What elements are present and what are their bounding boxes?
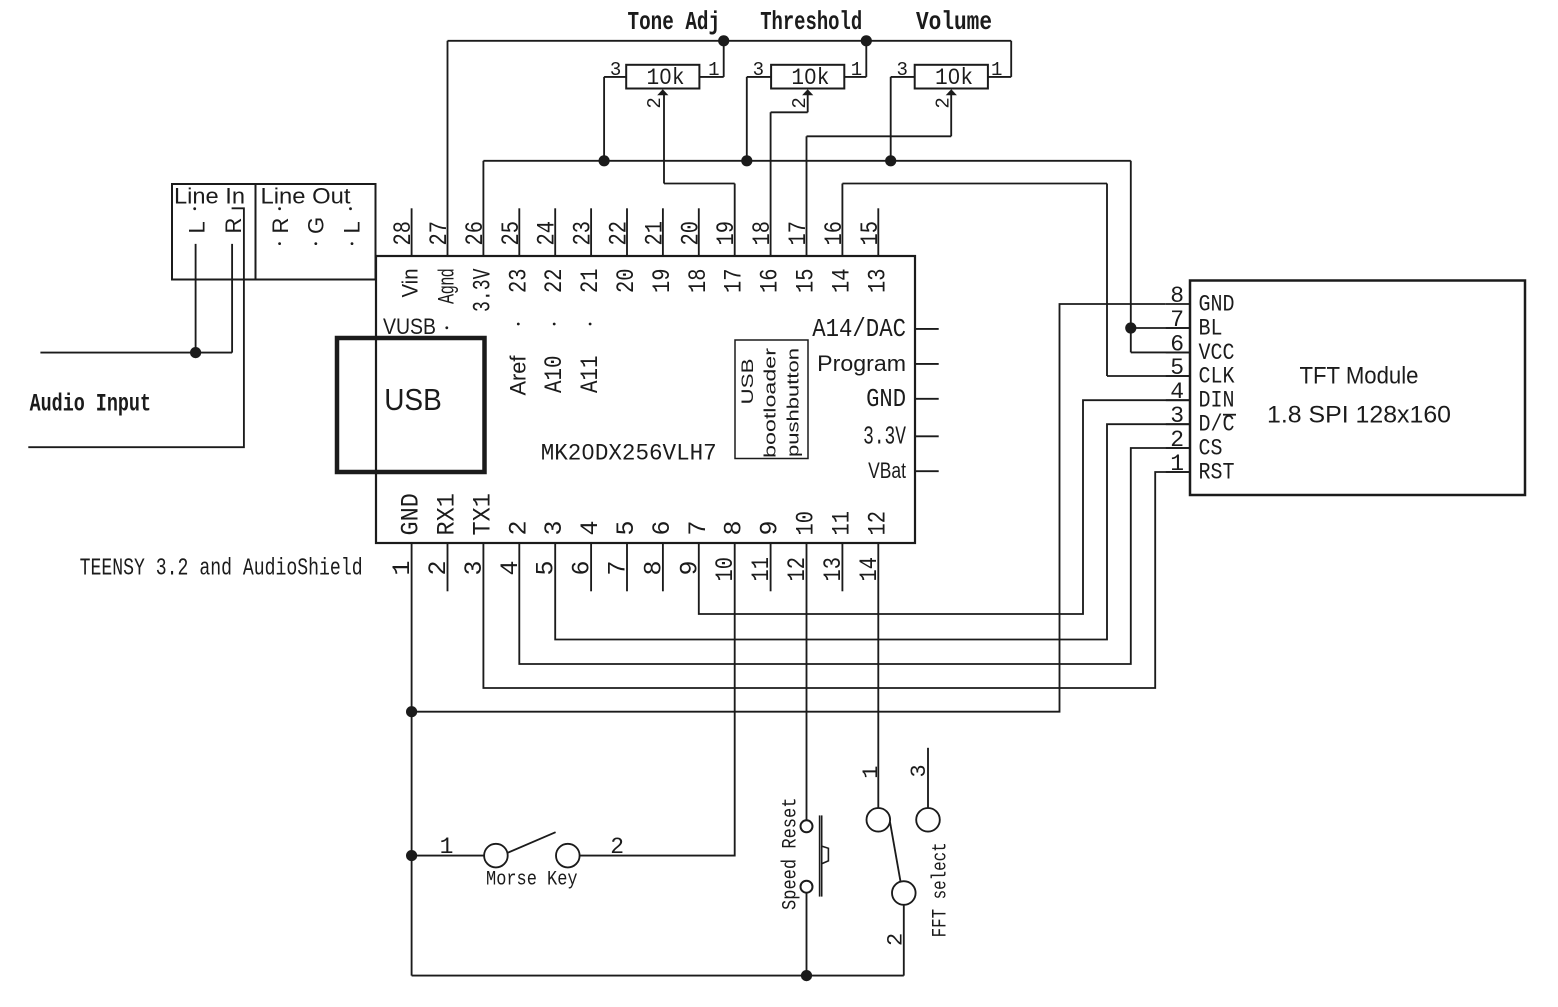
pin VBat right	[915, 470, 939, 472]
svg-text:22: 22	[540, 269, 569, 294]
svg-text:Tone Adj: Tone Adj	[628, 7, 721, 37]
wire pot2 wiper to pin 16 (pad 18)	[807, 95, 809, 112]
svg-text:A14/DAC: A14/DAC	[812, 314, 906, 344]
svg-text:1: 1	[708, 59, 719, 81]
svg-text:2: 2	[884, 933, 909, 946]
usb connector box	[337, 338, 485, 472]
pin 3 (D/C) TFT	[1166, 423, 1190, 425]
wire bottom GND rail	[412, 975, 904, 977]
pin pad 20 (18) top	[698, 208, 700, 256]
svg-text:3.3V: 3.3V	[863, 421, 906, 451]
svg-text:16: 16	[756, 269, 785, 294]
pin 5 (CLK) TFT	[1166, 375, 1190, 377]
svg-text:FFT select: FFT select	[930, 842, 953, 937]
svg-text:1.8 SPI 128x160: 1.8 SPI 128x160	[1267, 401, 1451, 428]
svg-text:3: 3	[610, 59, 621, 81]
svg-text:pushbutton: pushbutton	[784, 348, 803, 457]
wire pot1 pin3 drop	[603, 77, 605, 161]
wire pot3 wiper to pin 15 (pad 17)	[950, 95, 952, 136]
svg-text:GND: GND	[1199, 292, 1235, 318]
junction dot audio L	[190, 347, 201, 358]
svg-text:6: 6	[648, 520, 677, 535]
svg-text:18: 18	[748, 221, 777, 246]
pin 6 (VCC) TFT	[1166, 351, 1190, 353]
svg-text:Line Out: Line Out	[261, 184, 351, 209]
junction dot speed reset GND	[801, 970, 812, 981]
svg-text:GND: GND	[866, 384, 906, 414]
wire pin 12 (pad 14) to FFT select	[877, 543, 879, 808]
svg-text:17: 17	[720, 269, 749, 294]
connector Line In box	[172, 184, 256, 280]
svg-text:21: 21	[640, 221, 669, 246]
pin pad 24 (22) top	[554, 208, 556, 256]
svg-text:9: 9	[756, 520, 785, 535]
svg-text:G: G	[304, 217, 329, 234]
svg-text:25: 25	[497, 221, 526, 246]
svg-text:RX1: RX1	[433, 493, 462, 535]
pin A14/DAC right	[915, 328, 939, 330]
mcu U1 MK20DX256VLH7 body	[376, 256, 915, 543]
svg-text:18: 18	[684, 269, 713, 294]
wire GND net vertical	[411, 543, 413, 976]
svg-text:6: 6	[568, 560, 597, 575]
switch S3 FFT select	[867, 808, 891, 832]
pin Program right	[915, 363, 939, 365]
pin dot VUSB	[445, 326, 448, 329]
svg-text:22: 22	[605, 221, 634, 246]
svg-text:3: 3	[753, 59, 764, 81]
svg-text:23: 23	[504, 269, 533, 294]
wire morse pin2 to pin 8 (pad 10)	[580, 543, 735, 856]
svg-text:Vin: Vin	[398, 269, 423, 298]
svg-text:7: 7	[684, 520, 713, 535]
svg-text:USB: USB	[738, 359, 757, 405]
pin pad 8 (6) bottom	[662, 543, 664, 591]
svg-text:TFT Module: TFT Module	[1300, 363, 1419, 390]
pin dots Aref A10 A11	[517, 323, 520, 326]
pin pad 13 (11) bottom	[841, 543, 843, 591]
svg-text:3: 3	[1170, 403, 1184, 429]
svg-text:2: 2	[504, 520, 533, 535]
svg-text:8: 8	[639, 560, 668, 575]
wire pot3 pin3 drop	[890, 77, 892, 161]
svg-text:12: 12	[863, 511, 892, 536]
wire morse pin1	[412, 855, 484, 857]
svg-text:20: 20	[676, 221, 705, 246]
svg-text:15: 15	[856, 221, 885, 246]
svg-text:13: 13	[863, 269, 892, 294]
svg-text:USB: USB	[384, 382, 442, 417]
pin pad 21 (19) top	[662, 208, 664, 256]
pin pad 25 (23) top	[518, 208, 520, 256]
svg-text:8: 8	[720, 520, 749, 535]
svg-text:5: 5	[1170, 355, 1184, 381]
potentiometer R3 10k	[915, 65, 988, 89]
wire FFT pin 2 to GND rail	[903, 905, 905, 976]
svg-text:26: 26	[461, 221, 490, 246]
svg-text:A11: A11	[576, 356, 605, 394]
wire audio input bottom (R jog)	[28, 208, 244, 447]
svg-text:VCC: VCC	[1199, 340, 1235, 366]
svg-text:Audio Input: Audio Input	[30, 390, 151, 419]
svg-text:23: 23	[569, 221, 598, 246]
svg-text:TX1: TX1	[468, 493, 497, 535]
wire FFT pin 3 stub	[927, 748, 929, 808]
svg-text:10k: 10k	[935, 65, 973, 91]
pin pad 28 (Vin) top	[411, 208, 413, 256]
svg-text:3: 3	[896, 59, 907, 81]
svg-text:1: 1	[859, 766, 884, 779]
pin pad 11 (9) bottom	[770, 543, 772, 591]
svg-text:Threshold: Threshold	[760, 7, 862, 37]
svg-text:27: 27	[425, 221, 454, 246]
wire pin 10 (pad 12) to speed reset	[806, 543, 808, 820]
switch S1 Morse Key	[484, 844, 508, 868]
svg-text:1: 1	[851, 59, 862, 81]
svg-text:2: 2	[644, 97, 666, 108]
wire RST net (TX1 / pad 3)	[483, 472, 1190, 688]
svg-text:9: 9	[675, 560, 704, 575]
svg-text:Program: Program	[817, 351, 906, 376]
svg-text:5: 5	[612, 520, 641, 535]
svg-text:RST: RST	[1199, 460, 1235, 486]
pushbutton SW2 Speed Reset	[801, 820, 813, 832]
wire Agnd to pots pin1 (top rail)	[447, 41, 449, 256]
svg-text:28: 28	[389, 221, 418, 246]
wire CS net (pin 2 / pad 4)	[519, 448, 1190, 664]
svg-text:4: 4	[496, 560, 525, 575]
svg-text:13: 13	[819, 557, 848, 582]
svg-text:bootloader: bootloader	[761, 348, 780, 458]
svg-text:R: R	[221, 218, 246, 234]
svg-text:19: 19	[648, 269, 677, 294]
svg-text:VUSB: VUSB	[383, 314, 436, 339]
svg-text:MK20DX256VLH7: MK20DX256VLH7	[541, 441, 717, 467]
svg-text:1: 1	[388, 560, 417, 575]
pin dots Line In/Out	[193, 207, 196, 210]
pin pad 6 (4) bottom	[590, 543, 592, 591]
svg-text:A10: A10	[540, 356, 569, 394]
svg-text:1: 1	[1170, 451, 1184, 477]
wire DIN net (pin 7 / pad 9)	[699, 400, 1190, 614]
svg-text:4: 4	[576, 520, 605, 535]
svg-text:10: 10	[711, 557, 740, 582]
svg-text:12: 12	[783, 557, 812, 582]
pin 7 (BL) TFT	[1166, 327, 1190, 329]
svg-text:VBat: VBat	[868, 458, 906, 483]
junction dot TFT BL / 3.3V	[1125, 322, 1136, 333]
svg-text:4: 4	[1170, 379, 1184, 405]
svg-text:3: 3	[540, 520, 569, 535]
svg-text:21: 21	[576, 269, 605, 294]
junction dot pot2 pin3 / 3.3V	[741, 155, 752, 166]
wire 3.3V rail	[482, 161, 484, 256]
svg-text:Aref: Aref	[505, 355, 530, 396]
svg-text:Morse Key: Morse Key	[486, 869, 578, 892]
svg-text:2: 2	[1170, 427, 1184, 453]
pin 4 (DIN) TFT	[1166, 399, 1190, 401]
tft module box	[1190, 281, 1525, 496]
svg-text:Agnd: Agnd	[434, 269, 459, 305]
junction dot pot2 pin1 / Agnd	[861, 35, 872, 46]
svg-text:7: 7	[604, 560, 633, 575]
pin GND right	[915, 398, 939, 400]
svg-text:15: 15	[792, 269, 821, 294]
svg-text:16: 16	[820, 221, 849, 246]
wire pin 14 (pad 16) to TFT CLK	[841, 184, 843, 257]
svg-text:14: 14	[855, 557, 884, 582]
svg-text:10k: 10k	[647, 65, 685, 91]
svg-text:1: 1	[991, 59, 1002, 81]
svg-text:L: L	[340, 221, 365, 233]
svg-text:8: 8	[1170, 283, 1184, 309]
pin pad 7 (5) bottom	[626, 543, 628, 591]
svg-text:19: 19	[712, 221, 741, 246]
potentiometer R2 10k	[771, 65, 844, 89]
svg-text:3.3V: 3.3V	[468, 268, 497, 312]
wire D/C net (pin 3 / pad 5)	[555, 424, 1190, 639]
pin pad 15 (13) top	[877, 208, 879, 256]
svg-text:Line In: Line In	[174, 184, 245, 209]
junction dot pot1 pin3 / 3.3V	[599, 155, 610, 166]
svg-text:20: 20	[612, 269, 641, 294]
svg-text:Volume: Volume	[916, 7, 992, 37]
svg-text:CS: CS	[1199, 436, 1223, 462]
svg-text:CLK: CLK	[1199, 364, 1235, 390]
junction dot GND branch	[406, 706, 417, 717]
pin pad 22 (20) top	[626, 208, 628, 256]
connector Line Out box	[256, 184, 376, 280]
pin pad 2 (RX1) bottom	[447, 543, 449, 591]
svg-text:7: 7	[1170, 307, 1184, 333]
svg-text:11: 11	[747, 557, 776, 582]
svg-text:10k: 10k	[791, 65, 829, 91]
svg-text:L: L	[185, 221, 210, 233]
svg-text:14: 14	[827, 269, 856, 294]
svg-text:BL: BL	[1199, 316, 1223, 342]
svg-text:DIN: DIN	[1199, 388, 1235, 414]
svg-text:3: 3	[460, 560, 489, 575]
svg-text:Speed Reset: Speed Reset	[780, 798, 803, 911]
svg-text:TEENSY 3.2 and AudioShield: TEENSY 3.2 and AudioShield	[80, 556, 363, 583]
svg-text:R: R	[268, 218, 293, 234]
junction dot pot1 pin1 / Agnd	[718, 35, 729, 46]
svg-text:6: 6	[1170, 331, 1184, 357]
svg-text:11: 11	[827, 511, 856, 536]
svg-text:24: 24	[533, 221, 562, 246]
svg-text:17: 17	[784, 221, 813, 246]
pin pad 23 (21) top	[590, 208, 592, 256]
pin 3.3V right	[915, 435, 939, 437]
svg-text:10: 10	[792, 511, 821, 536]
wire pot1 wiper to pin 17 (pad 19)	[663, 95, 665, 184]
svg-text:GND: GND	[397, 493, 426, 535]
pin 8 (GND) TFT	[1166, 303, 1190, 305]
wire pot2 pin3 drop	[746, 77, 748, 161]
junction dot morse key pin1	[406, 850, 417, 861]
potentiometer R1 10k	[626, 65, 699, 89]
junction dot pot3 pin3 / 3.3V	[885, 155, 896, 166]
usb bootloader pushbutton box	[735, 340, 808, 459]
wire 3.3V to TFT BL and VCC	[1130, 161, 1132, 353]
pin 1 (RST) TFT	[1166, 471, 1190, 473]
wire GND net to TFT	[412, 304, 1166, 712]
svg-text:5: 5	[532, 560, 561, 575]
wire audio input top (to L and R)	[40, 352, 232, 354]
wire speed reset to GND rail	[806, 893, 808, 976]
svg-text:1: 1	[440, 834, 454, 860]
pin 2 (CS) TFT	[1166, 447, 1190, 449]
svg-text:2: 2	[424, 560, 453, 575]
